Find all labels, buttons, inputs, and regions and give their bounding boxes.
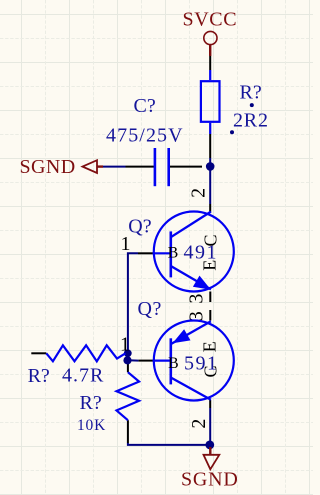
- svg-text:Q?: Q?: [128, 216, 151, 238]
- svg-text:3: 3: [185, 294, 207, 304]
- svg-text:R?: R?: [28, 365, 50, 387]
- svg-text:2: 2: [187, 188, 209, 198]
- svg-text:SVCC: SVCC: [183, 9, 238, 31]
- svg-text:475/25V: 475/25V: [106, 125, 184, 147]
- svg-text:B: B: [168, 245, 179, 262]
- svg-text:C: C: [200, 365, 220, 377]
- svg-text:Q?: Q?: [138, 298, 162, 320]
- svg-text:E: E: [200, 260, 220, 271]
- svg-text:1: 1: [121, 233, 131, 255]
- svg-text:E: E: [200, 341, 220, 352]
- svg-text:SGND: SGND: [181, 468, 239, 490]
- svg-text:R?: R?: [240, 82, 262, 104]
- svg-text:B: B: [168, 355, 179, 372]
- svg-text:2R2: 2R2: [233, 109, 269, 131]
- svg-text:SGND: SGND: [20, 156, 76, 178]
- svg-text:4.7R: 4.7R: [62, 365, 104, 387]
- svg-text:C?: C?: [134, 95, 156, 117]
- svg-text:C: C: [200, 234, 220, 246]
- svg-text:1: 1: [120, 333, 130, 355]
- svg-text:10K: 10K: [77, 417, 106, 434]
- svg-text:R?: R?: [80, 392, 102, 414]
- svg-text:2: 2: [188, 419, 210, 429]
